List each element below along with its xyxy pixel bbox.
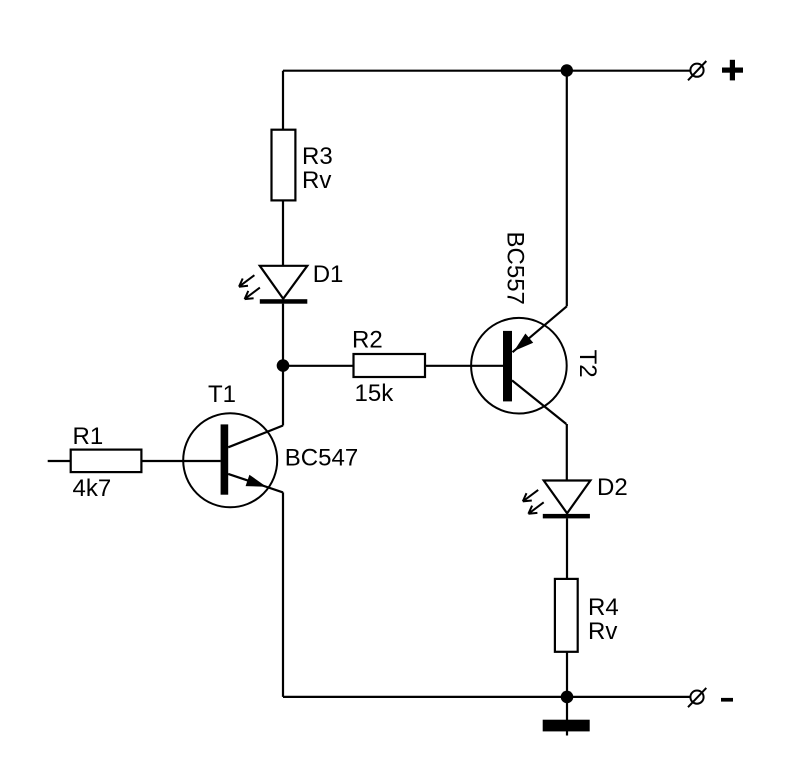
terminal minus circle xyxy=(688,688,706,707)
transistor T2 xyxy=(471,306,567,424)
svg-text:R2: R2 xyxy=(352,326,383,353)
svg-text:R1: R1 xyxy=(73,423,104,450)
ground xyxy=(543,697,590,736)
svg-text:D2: D2 xyxy=(597,474,628,501)
resistor R1 xyxy=(71,450,142,473)
svg-text:Rv: Rv xyxy=(302,167,331,194)
resistor R4 xyxy=(555,579,578,652)
svg-text:T1: T1 xyxy=(208,381,236,408)
node bottom junction dot xyxy=(561,691,574,704)
wire bottom rail xyxy=(283,696,690,698)
resistor R3 xyxy=(272,130,296,201)
wire left branch top (rail to R3) xyxy=(282,71,284,130)
LED D2 xyxy=(523,481,591,519)
svg-text:BC557: BC557 xyxy=(502,232,529,305)
wire R3 to D1 xyxy=(282,200,284,265)
svg-text:T2: T2 xyxy=(574,350,601,378)
plus sign xyxy=(722,60,743,81)
wire T2 collector down to D2 xyxy=(566,424,568,481)
svg-text:BC547: BC547 xyxy=(285,445,358,472)
svg-text:D1: D1 xyxy=(313,261,344,288)
svg-text:R4: R4 xyxy=(588,594,619,621)
wire R1 left stub xyxy=(48,460,71,462)
wire T1 base to R1 xyxy=(141,460,220,462)
terminal plus circle xyxy=(688,61,706,80)
wire top dot down to T2 emitter corner xyxy=(566,71,568,307)
node A junction dot xyxy=(277,359,290,372)
transistor T1 xyxy=(183,413,283,507)
wire T1 emitter down to bottom rail xyxy=(282,492,284,697)
wire D2 to R4 xyxy=(566,518,568,579)
wire R2 to T2 base xyxy=(425,365,503,367)
wire R4 to bottom rail xyxy=(566,652,568,697)
svg-text:4k7: 4k7 xyxy=(73,475,112,502)
minus sign xyxy=(721,698,733,702)
svg-text:Rv: Rv xyxy=(588,618,617,645)
svg-text:15k: 15k xyxy=(355,380,395,407)
wire top rail xyxy=(283,70,690,72)
LED D1 xyxy=(239,266,307,304)
wire node to R2 xyxy=(283,365,354,367)
wire D1 to T1 collector corner xyxy=(282,304,284,426)
resistor R2 xyxy=(354,354,426,377)
node top junction dot xyxy=(561,64,573,76)
